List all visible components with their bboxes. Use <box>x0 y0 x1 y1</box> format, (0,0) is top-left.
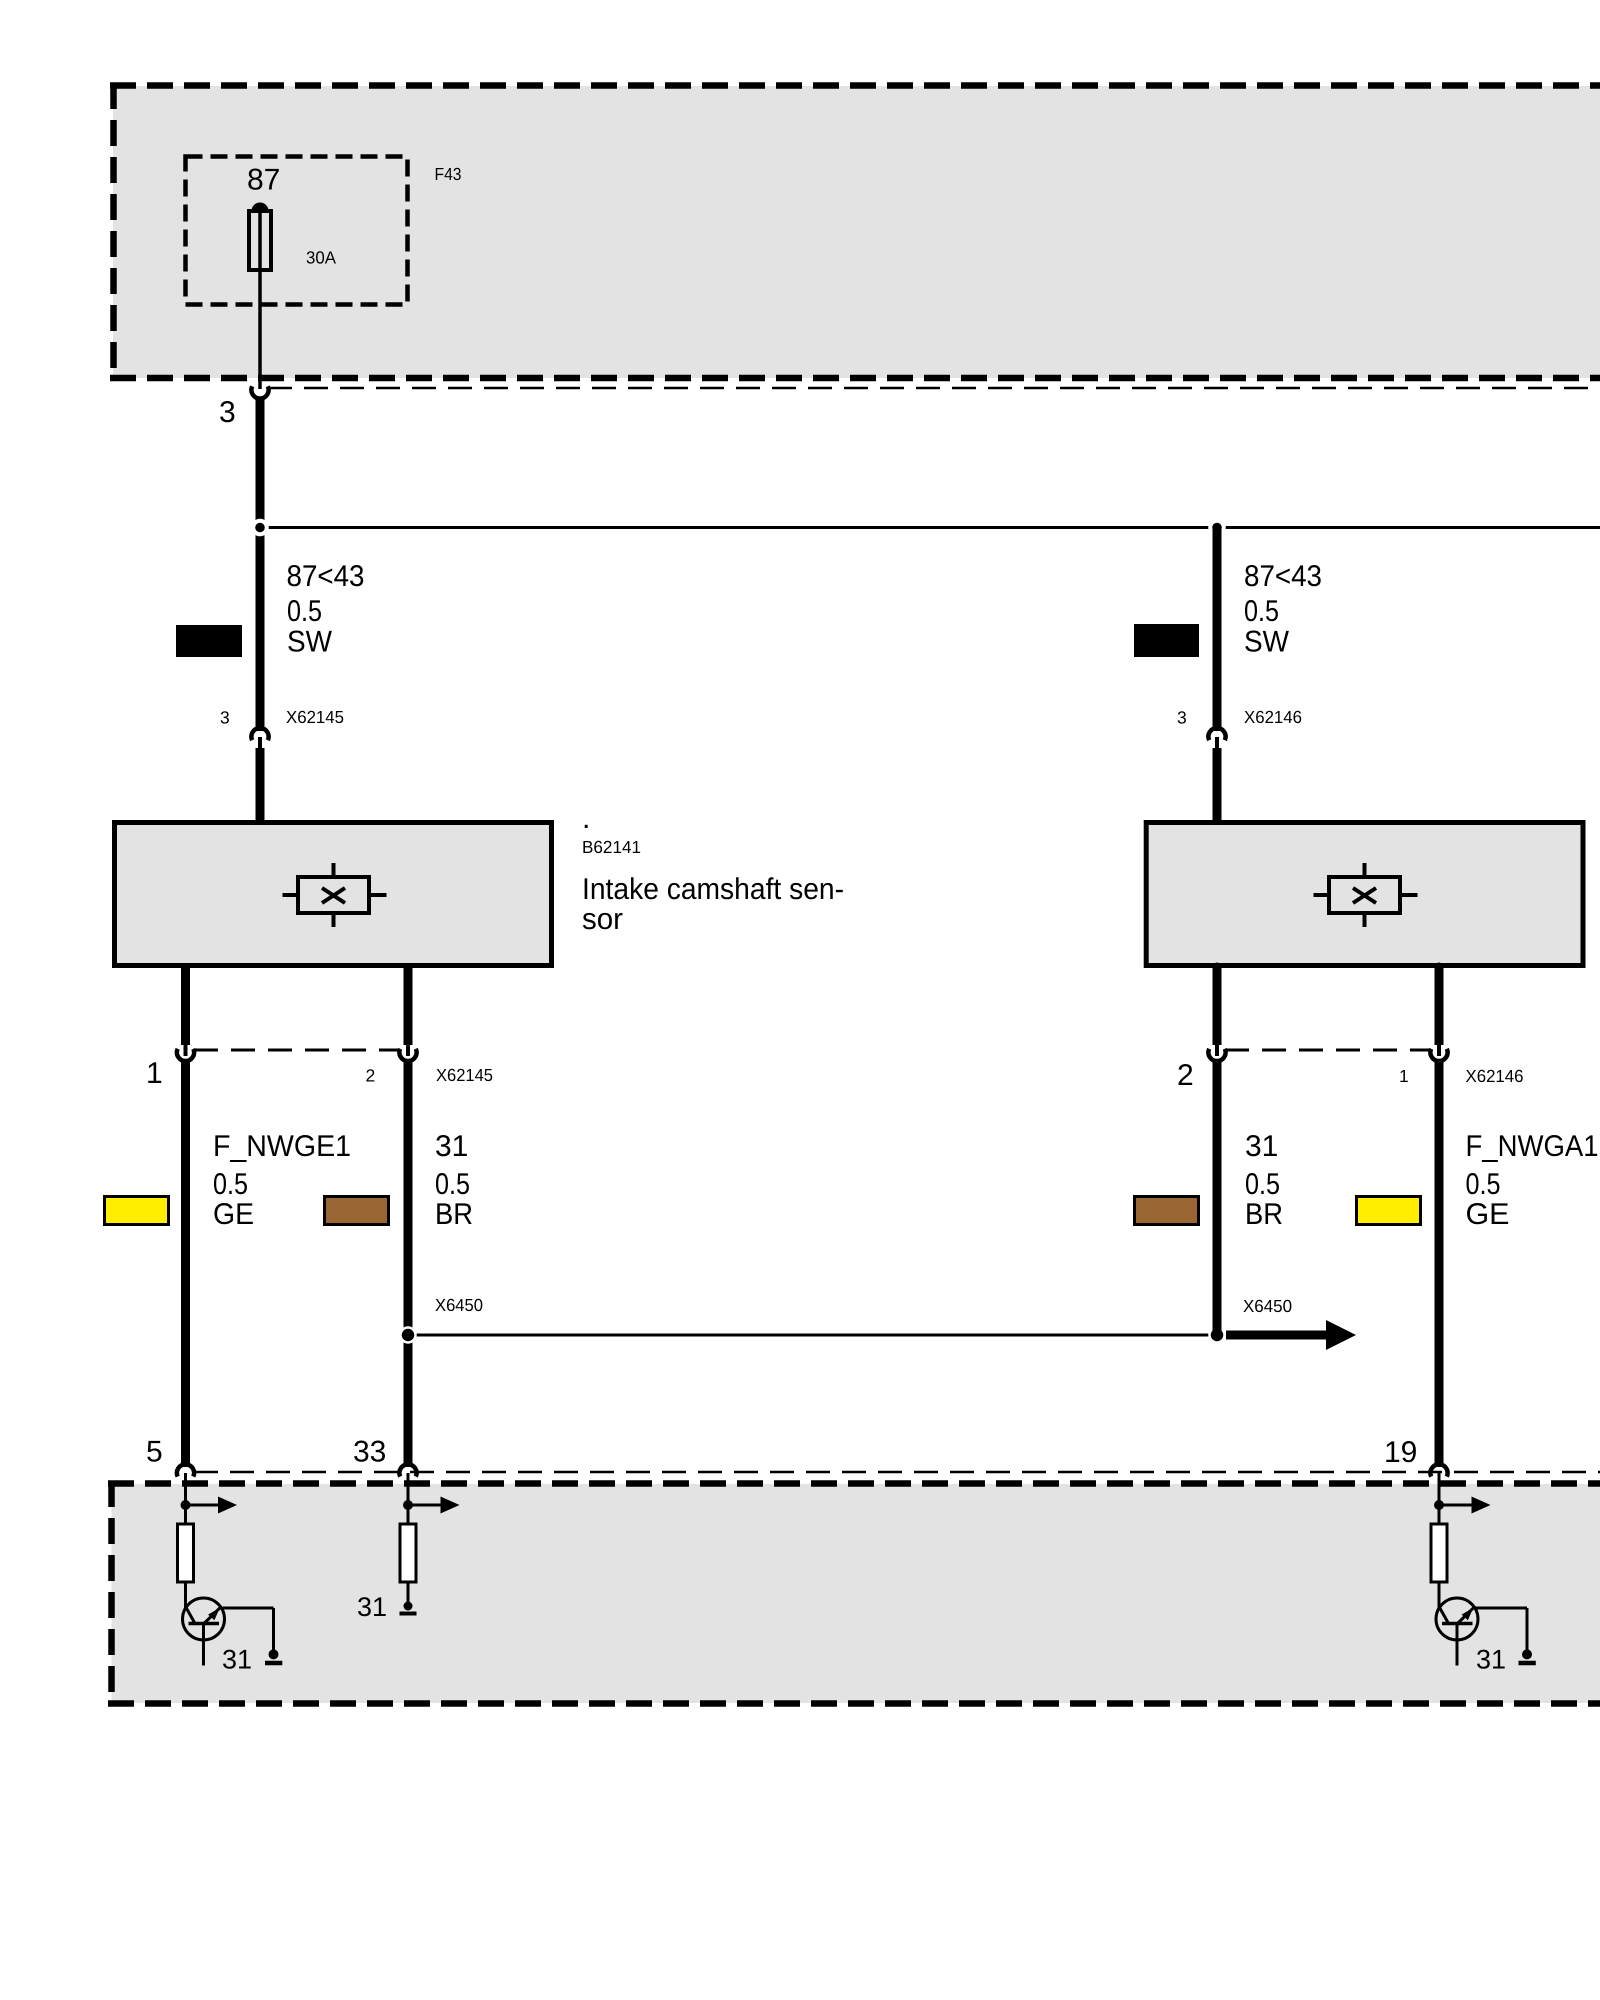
connector socket at fuse box exit (pin 3) <box>251 386 268 398</box>
svg-text:33: 33 <box>353 1436 386 1469</box>
wire SW 0.5 (right feed to X62146) <box>1213 528 1222 732</box>
ground (pin 5 channel) <box>269 1649 279 1659</box>
svg-text:31: 31 <box>222 1645 252 1675</box>
svg-text:1: 1 <box>1399 1066 1409 1086</box>
node (left junction) <box>253 521 267 535</box>
svg-text:0.5: 0.5 <box>213 1168 248 1201</box>
svg-text:F_NWGE1: F_NWGE1 <box>213 1130 351 1163</box>
svg-text:2: 2 <box>366 1066 376 1086</box>
wire from right sensor pin 2 <box>1213 967 1222 1045</box>
connector X62145 pin 2: pin and socket <box>406 1043 410 1056</box>
svg-text:0.5: 0.5 <box>1244 595 1279 628</box>
connector dashed link (X62146) <box>1225 1049 1431 1052</box>
svg-text:BR: BR <box>435 1198 473 1231</box>
svg-text:SW: SW <box>1244 626 1290 659</box>
transistor Q (pin 5 channel) <box>183 1582 274 1666</box>
ground (pin 33 channel) <box>407 1582 410 1602</box>
wire F_NWGE1 GE (left) <box>181 1060 190 1467</box>
wire from terminal 87 through fuse to connector pin <box>258 203 262 389</box>
colour chip black SW (right) <box>1134 624 1199 657</box>
wire 31 BR (right, ends at splice X6450) <box>1213 1060 1222 1335</box>
sensor symbol (right) <box>1314 863 1418 927</box>
resistor R (pin 33 channel) <box>407 1505 410 1524</box>
node X6450 (right) <box>1210 1328 1225 1343</box>
colour chip yellow GE (right) <box>1357 1197 1421 1225</box>
svg-text:X62146: X62146 <box>1244 707 1302 727</box>
svg-text:0.5: 0.5 <box>1466 1168 1501 1201</box>
svg-text:31: 31 <box>357 1592 387 1622</box>
fuse carrier box (top dashed grey box, cut off at right) <box>110 83 1600 380</box>
svg-text:87<43: 87<43 <box>1244 560 1322 593</box>
DME pin 5 pin <box>184 1473 187 1505</box>
exhaust camshaft sensor (right grey box, cut off at right) <box>1146 816 1583 972</box>
svg-text:2: 2 <box>1177 1059 1194 1092</box>
svg-text:X6450: X6450 <box>435 1295 483 1315</box>
svg-text:X62146: X62146 <box>1466 1066 1524 1086</box>
DME pin 33 socket <box>399 1464 416 1476</box>
fuse holder F43 dashed box <box>186 157 408 305</box>
fuse F43 30A body <box>249 211 271 270</box>
svg-text:31: 31 <box>435 1130 468 1163</box>
DME pin 5 socket <box>177 1464 194 1476</box>
connector X62145 pin 1: pin and socket <box>184 1043 188 1056</box>
signal arrow (pin 19 channel) <box>1439 1504 1472 1507</box>
colour chip brown BR (right) <box>1135 1197 1199 1225</box>
svg-text:3: 3 <box>220 708 230 728</box>
connector X62146 pin 3 pin <box>1215 737 1219 752</box>
svg-text:X6450: X6450 <box>1243 1296 1292 1316</box>
svg-text:19: 19 <box>1384 1436 1417 1469</box>
connector X62145 pin 3 socket <box>251 728 268 740</box>
svg-text:5: 5 <box>146 1436 163 1469</box>
node (right junction) <box>1210 521 1224 535</box>
svg-text:87: 87 <box>247 164 280 197</box>
svg-text:87<43: 87<43 <box>287 560 365 593</box>
sensor symbol (left) <box>283 863 387 927</box>
node (pin 19 channel) <box>1434 1500 1444 1510</box>
svg-text:sor: sor <box>582 903 623 936</box>
wire to right sensor <box>1213 748 1222 822</box>
connector X62146 pin 2: pin and socket <box>1215 1043 1219 1056</box>
wire from right sensor pin 1 <box>1435 967 1444 1045</box>
node (pin 5 channel) <box>181 1500 191 1510</box>
wire from left sensor pin 1 <box>181 968 190 1045</box>
svg-text:30A: 30A <box>306 248 336 268</box>
svg-text:0.5: 0.5 <box>287 595 322 628</box>
wire F_NWGA1 GE (right) <box>1435 1060 1444 1467</box>
svg-text:1: 1 <box>146 1057 163 1090</box>
DME pin 33 pin <box>407 1473 410 1505</box>
connector dashed link (X62145) <box>194 1049 400 1052</box>
svg-text:SW: SW <box>287 626 333 659</box>
svg-text:X62145: X62145 <box>286 707 344 727</box>
svg-text:31: 31 <box>1476 1645 1506 1675</box>
svg-text:3: 3 <box>219 396 236 429</box>
connector X62146 pin 1: pin and socket <box>1437 1043 1441 1056</box>
node (pin 33 channel) <box>403 1500 413 1510</box>
DME pin 19 socket <box>1430 1464 1447 1476</box>
svg-text:31: 31 <box>1245 1130 1278 1163</box>
ground link wire X6450 (horizontal) <box>408 1334 1217 1337</box>
transistor Q (pin 19 channel) <box>1436 1582 1527 1666</box>
off-page arrow X6450 <box>1226 1331 1331 1340</box>
colour chip black SW (left) <box>176 625 242 657</box>
page separator dashed line (top) <box>268 387 1600 390</box>
connector X62146 pin 3 socket <box>1208 728 1225 740</box>
ground (pin 19 channel) <box>1522 1649 1532 1659</box>
svg-text:3: 3 <box>1177 708 1187 728</box>
svg-text:Intake camshaft sen-: Intake camshaft sen- <box>582 873 844 906</box>
svg-text:B62141: B62141 <box>582 837 641 857</box>
svg-text:F_NWGA1: F_NWGA1 <box>1466 1130 1599 1163</box>
colour chip yellow GE (left) <box>105 1197 169 1225</box>
resistor R (pin 19 channel) <box>1438 1505 1441 1524</box>
distribution wire (horizontal, terminal 87) <box>260 526 1600 529</box>
intake camshaft sensor B62141 (left grey box) <box>115 816 552 973</box>
svg-text:0.5: 0.5 <box>435 1168 470 1201</box>
wire from left sensor pin 2 <box>404 968 413 1045</box>
svg-text:GE: GE <box>1466 1198 1510 1231</box>
wire SW 0.5 (left feed, fuse to X62145) <box>256 397 265 731</box>
signal arrow (pin 5 channel) <box>186 1504 219 1507</box>
page separator dashed line (bottom) <box>194 1471 1600 1474</box>
svg-text:.: . <box>582 802 590 835</box>
resistor R (pin 5 channel) <box>184 1505 187 1524</box>
DME pin 19 pin <box>1438 1473 1441 1505</box>
signal arrow (pin 33 channel) <box>408 1504 441 1507</box>
svg-text:GE: GE <box>213 1198 254 1231</box>
connector X62145 pin 3 pin <box>258 737 262 752</box>
wire 31 BR (left) <box>404 1060 413 1467</box>
terminal pin cap <box>252 203 269 212</box>
node X6450 (left) <box>401 1328 416 1343</box>
svg-text:0.5: 0.5 <box>1245 1168 1280 1201</box>
svg-text:X62145: X62145 <box>436 1065 493 1085</box>
svg-text:F43: F43 <box>435 164 462 184</box>
colour chip brown BR (left) <box>325 1197 389 1225</box>
DME control unit (bottom dashed grey box, cut off at right) <box>108 1481 1600 1706</box>
svg-text:BR: BR <box>1245 1198 1283 1231</box>
wire to left sensor <box>256 748 265 822</box>
